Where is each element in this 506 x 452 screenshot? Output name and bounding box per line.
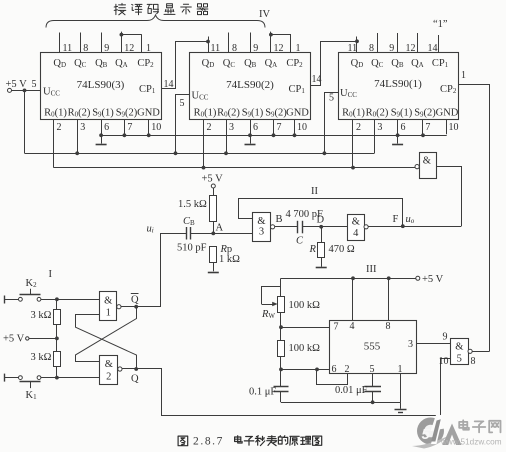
svg-text:7: 7: [127, 122, 132, 133]
svg-text:R0(2): R0(2): [366, 108, 389, 119]
svg-text:5: 5: [422, 426, 431, 443]
svg-text:6: 6: [401, 122, 406, 133]
svg-text:510 pF: 510 pF: [177, 243, 207, 254]
svg-text:10: 10: [151, 122, 161, 133]
svg-text:B: B: [276, 214, 283, 225]
svg-text:R0(1): R0(1): [44, 108, 67, 119]
svg-text:9: 9: [104, 43, 109, 54]
svg-text:2: 2: [106, 372, 111, 383]
svg-text:III: III: [366, 264, 377, 275]
svg-text:6: 6: [332, 364, 337, 375]
svg-text:470 Ω: 470 Ω: [329, 244, 355, 255]
svg-text:8: 8: [386, 321, 391, 332]
svg-text:+5 V: +5 V: [202, 174, 224, 185]
svg-text:R0(1): R0(1): [194, 108, 217, 119]
svg-text:74LS90(2): 74LS90(2): [226, 79, 274, 91]
svg-text:S9(1): S9(1): [242, 108, 264, 119]
svg-text:S9(1): S9(1): [92, 108, 114, 119]
svg-text:GND: GND: [286, 108, 309, 119]
svg-text:&: &: [104, 296, 112, 307]
svg-text:GND: GND: [436, 108, 459, 119]
svg-text:D: D: [317, 215, 325, 226]
svg-text:10: 10: [297, 122, 307, 133]
svg-text:1: 1: [106, 308, 111, 319]
svg-text:3 kΩ: 3 kΩ: [31, 352, 52, 363]
svg-text:7: 7: [334, 322, 339, 333]
svg-text:8: 8: [83, 43, 88, 54]
svg-text:1.5 kΩ: 1.5 kΩ: [178, 199, 207, 210]
svg-text:I: I: [49, 269, 53, 280]
svg-text:S9(2): S9(2): [116, 108, 138, 119]
svg-text:S9(1): S9(1): [391, 108, 413, 119]
svg-text:C: C: [296, 236, 304, 247]
svg-text:9: 9: [389, 43, 394, 54]
svg-text:10: 10: [449, 122, 459, 133]
svg-text:12: 12: [124, 43, 134, 54]
svg-text:5: 5: [457, 354, 462, 365]
svg-text:5: 5: [329, 93, 334, 104]
svg-text:9: 9: [253, 43, 258, 54]
svg-text:2: 2: [356, 122, 361, 133]
svg-text:2: 2: [345, 364, 350, 375]
svg-text:1: 1: [461, 70, 466, 81]
svg-text:3: 3: [377, 122, 382, 133]
svg-text:Q: Q: [131, 295, 139, 306]
svg-text:100 kΩ: 100 kΩ: [289, 300, 321, 311]
svg-text:www.51dzw.com: www.51dzw.com: [440, 438, 502, 447]
svg-text:1: 1: [398, 364, 403, 375]
svg-text:74LS90(3): 74LS90(3): [77, 79, 125, 91]
svg-text:555: 555: [364, 341, 381, 353]
svg-text:+5 V: +5 V: [3, 334, 25, 345]
svg-text:7: 7: [277, 122, 282, 133]
svg-text:12: 12: [406, 43, 416, 54]
svg-text:+5 V: +5 V: [422, 274, 444, 285]
svg-text:R: R: [309, 244, 317, 255]
svg-text:IV: IV: [259, 9, 270, 20]
svg-text:14: 14: [428, 43, 438, 54]
svg-text:5: 5: [370, 364, 375, 375]
svg-text:7: 7: [425, 122, 430, 133]
svg-text:&: &: [105, 359, 113, 370]
svg-text:1 kΩ: 1 kΩ: [219, 254, 240, 265]
svg-text:“1”: “1”: [433, 19, 448, 30]
svg-text:S9(2): S9(2): [265, 108, 287, 119]
svg-text:4: 4: [350, 321, 355, 332]
svg-text:9: 9: [443, 332, 448, 343]
svg-text:&: &: [423, 156, 431, 167]
svg-text:6: 6: [104, 122, 109, 133]
svg-text:5: 5: [32, 79, 37, 90]
svg-text:1: 1: [296, 43, 301, 54]
svg-text:3 kΩ: 3 kΩ: [31, 310, 52, 321]
svg-text:2: 2: [57, 122, 62, 133]
svg-text:2: 2: [207, 122, 212, 133]
svg-text:R0(2): R0(2): [217, 108, 240, 119]
svg-text:2.8.7: 2.8.7: [193, 436, 224, 448]
svg-text:12: 12: [274, 43, 284, 54]
svg-text:11: 11: [211, 43, 221, 54]
svg-text:R0(2): R0(2): [68, 108, 91, 119]
svg-text:0.1 μF: 0.1 μF: [249, 387, 276, 398]
svg-text:3: 3: [80, 122, 85, 133]
svg-text:F: F: [393, 214, 399, 225]
svg-text:10: 10: [439, 356, 449, 367]
svg-text:11: 11: [348, 43, 358, 54]
svg-text:8: 8: [471, 356, 476, 367]
svg-text:0.01 μF: 0.01 μF: [335, 385, 368, 396]
svg-text:4: 4: [353, 228, 359, 239]
svg-text:8: 8: [232, 43, 237, 54]
svg-text:&: &: [455, 342, 463, 353]
svg-text:8: 8: [369, 43, 374, 54]
svg-text:3: 3: [408, 339, 413, 350]
svg-text:&: &: [257, 216, 265, 227]
svg-text:74LS90(1): 74LS90(1): [374, 78, 422, 90]
svg-text:3: 3: [259, 227, 264, 238]
svg-text:Q: Q: [131, 374, 139, 385]
svg-text:5: 5: [180, 98, 185, 109]
svg-text:6: 6: [253, 122, 258, 133]
svg-text:100 kΩ: 100 kΩ: [289, 343, 321, 354]
svg-text:11: 11: [63, 43, 73, 54]
svg-text:R0(1): R0(1): [342, 108, 365, 119]
svg-text:1: 1: [146, 43, 151, 54]
svg-text:II: II: [311, 186, 318, 197]
svg-text:GND: GND: [137, 108, 160, 119]
svg-text:S9(2): S9(2): [414, 108, 436, 119]
svg-text:A: A: [216, 223, 224, 234]
svg-text:3: 3: [229, 122, 234, 133]
svg-text:&: &: [352, 217, 360, 228]
